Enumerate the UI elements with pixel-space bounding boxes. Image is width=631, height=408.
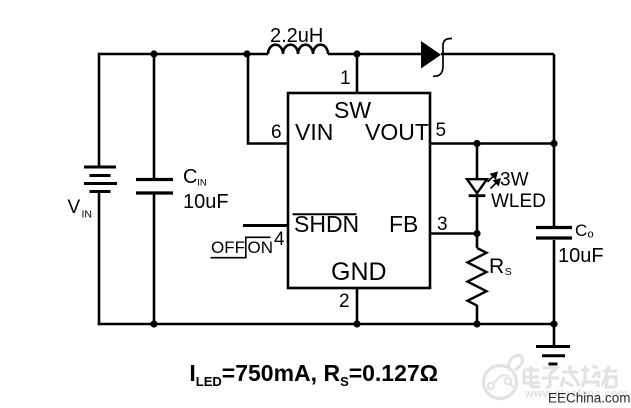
svg-text:1: 1 bbox=[340, 68, 351, 89]
svg-text:S: S bbox=[505, 266, 512, 278]
svg-text:o: o bbox=[588, 229, 594, 241]
svg-text:EEChina.com: EEChina.com bbox=[548, 391, 631, 406]
svg-text:LED: LED bbox=[196, 374, 222, 389]
svg-text:=750mA, R: =750mA, R bbox=[222, 360, 341, 386]
svg-text:10uF: 10uF bbox=[183, 191, 229, 213]
svg-text:3: 3 bbox=[437, 214, 448, 235]
svg-text:4: 4 bbox=[274, 229, 285, 250]
svg-text:C: C bbox=[575, 221, 587, 240]
svg-text:10uF: 10uF bbox=[558, 245, 604, 267]
svg-text:C: C bbox=[183, 166, 197, 188]
svg-text:GND: GND bbox=[331, 258, 387, 286]
svg-text:ON: ON bbox=[248, 238, 274, 257]
svg-text:5: 5 bbox=[436, 120, 447, 141]
svg-text:6: 6 bbox=[271, 122, 282, 143]
svg-text:2.2uH: 2.2uH bbox=[270, 25, 323, 47]
svg-text:2: 2 bbox=[339, 291, 350, 312]
svg-text:VOUT: VOUT bbox=[365, 119, 429, 145]
svg-text:3W: 3W bbox=[500, 170, 529, 191]
svg-text:WLED: WLED bbox=[491, 191, 546, 212]
svg-text:FB: FB bbox=[389, 211, 418, 237]
svg-text:VIN: VIN bbox=[295, 119, 333, 145]
svg-text:R: R bbox=[489, 255, 504, 278]
svg-text:IN: IN bbox=[197, 178, 207, 189]
svg-text:IN: IN bbox=[82, 209, 93, 221]
svg-text:OFF: OFF bbox=[211, 238, 245, 257]
svg-text:V: V bbox=[68, 197, 81, 218]
svg-text:=0.127Ω: =0.127Ω bbox=[349, 360, 438, 386]
